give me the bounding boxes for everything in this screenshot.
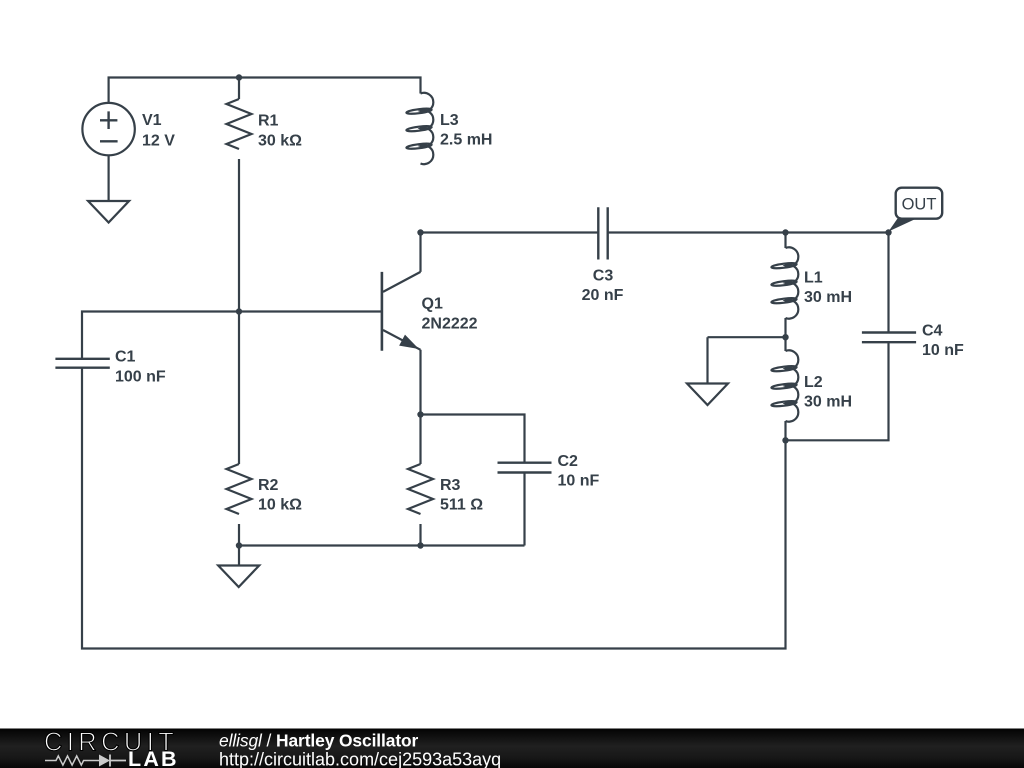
svg-text:L1: L1 — [804, 270, 823, 287]
svg-text:C2: C2 — [558, 453, 579, 470]
svg-text:511 Ω: 511 Ω — [440, 497, 483, 514]
svg-text:10 kΩ: 10 kΩ — [258, 497, 302, 514]
svg-text:30 kΩ: 30 kΩ — [258, 133, 302, 150]
svg-text:10 nF: 10 nF — [558, 473, 600, 490]
svg-text:Q1: Q1 — [422, 296, 443, 313]
svg-text:30 mH: 30 mH — [804, 289, 852, 306]
svg-text:100 nF: 100 nF — [115, 369, 166, 386]
svg-text:OUT: OUT — [902, 196, 937, 214]
svg-text:30 mH: 30 mH — [804, 394, 852, 411]
svg-text:12 V: 12 V — [142, 133, 175, 150]
svg-text:C1: C1 — [115, 349, 136, 366]
svg-text:L2: L2 — [804, 374, 823, 391]
svg-text:L3: L3 — [440, 112, 459, 129]
svg-text:20 nF: 20 nF — [582, 287, 624, 304]
svg-text:10 nF: 10 nF — [922, 342, 964, 359]
svg-text:2N2222: 2N2222 — [422, 316, 478, 333]
svg-text:R2: R2 — [258, 477, 279, 494]
svg-text:R3: R3 — [440, 477, 461, 494]
svg-text:LAB: LAB — [128, 747, 179, 768]
svg-text:V1: V1 — [142, 112, 162, 129]
svg-text:C3: C3 — [593, 268, 614, 285]
svg-text:ellisgl / Hartley Oscillator: ellisgl / Hartley Oscillator — [219, 731, 419, 751]
svg-text:C4: C4 — [922, 323, 943, 340]
svg-text:2.5 mH: 2.5 mH — [440, 132, 492, 149]
svg-text:R1: R1 — [258, 113, 279, 130]
svg-text:http://circuitlab.com/cej2593a: http://circuitlab.com/cej2593a53ayq — [219, 750, 501, 768]
